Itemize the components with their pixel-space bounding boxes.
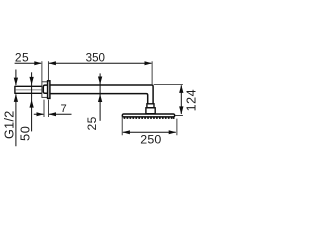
dimension 25 (arm diameter)	[85, 73, 102, 130]
shower head plate	[122, 114, 174, 117]
wall thread pipe G1/2	[15, 86, 43, 94]
wall flange disc	[48, 81, 50, 99]
dimension 50 (escutcheon diameter)	[17, 72, 33, 141]
escutcheon plate	[42, 82, 48, 98]
svg-text:50: 50	[17, 126, 32, 141]
head connector nut	[146, 108, 155, 114]
dimension 25 (escutcheon depth)	[15, 51, 49, 82]
spray nozzles	[124, 117, 175, 119]
dimension 350 (arm length)	[48, 51, 152, 84]
dimension 7 (flange depth)	[34, 100, 72, 117]
dimension 124 (head drop height)	[154, 85, 199, 116]
shower arm with elbow	[50, 85, 153, 104]
svg-text:25: 25	[85, 116, 99, 130]
svg-text:7: 7	[60, 103, 66, 115]
svg-text:25: 25	[15, 51, 29, 65]
svg-text:250: 250	[140, 133, 161, 147]
svg-text:350: 350	[86, 51, 105, 64]
mounting nut	[43, 85, 48, 93]
dimension G1/2 (thread size)	[3, 70, 18, 147]
dimension 250 (head width)	[122, 116, 177, 147]
svg-text:124: 124	[185, 89, 199, 112]
svg-text:G1/2: G1/2	[3, 110, 17, 139]
elbow nut	[147, 104, 154, 108]
